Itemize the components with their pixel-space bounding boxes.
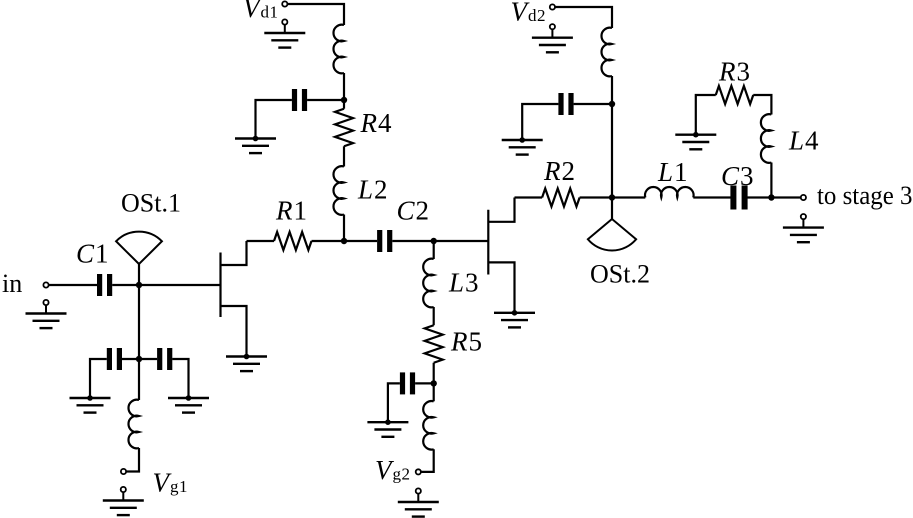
svg-text:in: in: [2, 269, 22, 298]
svg-text:Vd1: Vd1: [243, 0, 279, 23]
svg-text:R5: R5: [450, 327, 483, 357]
svg-text:L1: L1: [657, 157, 689, 187]
svg-text:R3: R3: [718, 57, 751, 87]
svg-text:L3: L3: [448, 268, 480, 298]
svg-text:OSt.2: OSt.2: [590, 260, 650, 289]
svg-text:C3: C3: [721, 161, 755, 191]
svg-text:C2: C2: [397, 195, 431, 225]
svg-text:L4: L4: [788, 126, 820, 156]
svg-text:to stage 3: to stage 3: [817, 181, 913, 210]
svg-text:OSt.1: OSt.1: [121, 189, 181, 218]
svg-text:R4: R4: [360, 108, 393, 138]
svg-text:R1: R1: [275, 196, 308, 226]
svg-text:L2: L2: [357, 175, 389, 205]
svg-text:C1: C1: [76, 239, 110, 269]
svg-text:R2: R2: [543, 156, 576, 186]
